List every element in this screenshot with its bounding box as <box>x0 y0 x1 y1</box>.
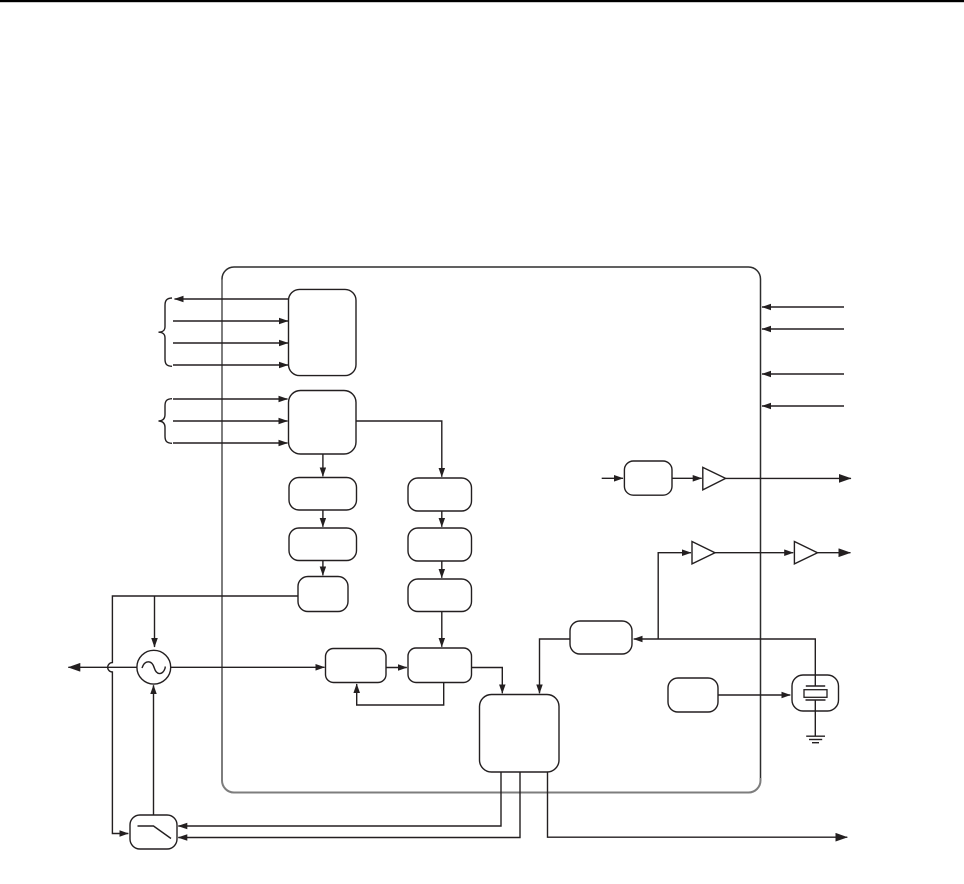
block RA <box>408 478 472 511</box>
wire right input 4 <box>762 405 844 407</box>
wire RC to mixer M2 <box>441 612 443 647</box>
wire bus1 in3 <box>173 364 288 366</box>
wire tap to buffer A2 <box>658 553 691 639</box>
wire RA to RB <box>441 511 443 527</box>
wire bus1 in2 <box>173 342 288 344</box>
wire VCO to mixer M1 <box>171 666 325 668</box>
wire crystal to ground <box>814 700 816 736</box>
wire A1 output <box>726 477 851 479</box>
wire RB to RC <box>441 561 443 578</box>
wire LB to LC <box>322 561 324 576</box>
wire bus1 out <box>175 298 290 300</box>
wire Y to crystal <box>718 694 790 696</box>
VCO oscillator <box>137 650 171 684</box>
wire crystal to X1 <box>634 639 816 685</box>
wire bus2 in1 <box>173 398 288 400</box>
wire branch to VCO top <box>154 596 156 647</box>
wire block2 to left chain <box>322 454 324 476</box>
wire big block out 1 to LPF <box>178 772 501 826</box>
block B1 <box>289 289 357 375</box>
wire bus2 in2 <box>173 420 288 422</box>
brace bus2 <box>159 399 173 444</box>
block LC <box>298 577 348 612</box>
wire input to block Z <box>602 477 623 479</box>
wire M1 to M2 <box>386 667 407 669</box>
wire big block out 2 to LPF <box>178 772 520 838</box>
IC boundary U1 <box>222 267 761 793</box>
block Z <box>624 461 672 495</box>
block LA <box>289 478 357 511</box>
wire M2 to big block <box>472 668 503 694</box>
buffer A2 <box>692 542 715 564</box>
mixer M1 <box>326 649 387 683</box>
buffer A3 <box>794 542 817 564</box>
wire LA to LB <box>322 510 324 527</box>
wire A2 to A3 <box>715 552 793 554</box>
wire X1 to big block <box>540 639 571 693</box>
ground <box>806 736 825 743</box>
buffer A1 <box>703 467 726 490</box>
block LB <box>289 528 357 561</box>
big block BB <box>480 695 560 773</box>
wire bus1 in1 <box>173 320 288 322</box>
wire M2 feedback to M1 <box>357 683 444 706</box>
wire LPF to VCO <box>153 685 155 815</box>
wire right input 3 <box>762 373 844 375</box>
wire LC to LPF with hop <box>108 596 298 834</box>
wire Z to buffer A1 <box>672 477 702 479</box>
wire VCO output left <box>68 666 137 668</box>
wire right input 1 <box>762 306 844 308</box>
wire right input 2 <box>762 328 844 330</box>
wire bus2 in3 <box>173 442 288 444</box>
block Y <box>668 678 718 712</box>
brace bus1 <box>159 298 173 366</box>
mixer M2 <box>408 648 472 683</box>
wire A3 output <box>818 552 851 554</box>
block X1 <box>570 621 632 654</box>
crystal Y1 <box>792 675 839 711</box>
page top rule <box>0 0 964 2</box>
block RB <box>408 528 472 561</box>
block RC <box>408 579 472 612</box>
wire block2 to right chain <box>356 421 442 477</box>
LPF filter <box>130 815 177 849</box>
wire big block out 3 <box>548 772 848 837</box>
block B2 <box>289 391 357 455</box>
